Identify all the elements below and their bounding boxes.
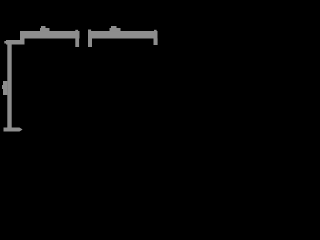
via stub V2: crossing at W4 left end: [88, 30, 92, 48]
wire W1: top-left horizontal net: [20, 31, 80, 39]
pin stub P1: nub at left end of jog: [4, 41, 6, 44]
wire: W1 lower horizontal jog: [6, 40, 25, 45]
pin stub P2: left protrusion on bus: [2, 81, 7, 95]
junction node N1: stepped stub on top of W1: [40, 26, 50, 31]
wire: W1 left corner vertical drop: [20, 31, 25, 45]
via stub V3: crossing at W4 right end: [154, 30, 158, 45]
wire W4: top-right horizontal net: [88, 31, 158, 39]
wire W3: bottom foot with tapered end: [4, 128, 23, 132]
via stub V1: crossing at W1 right end: [75, 30, 79, 47]
junction node N2: stepped stub on top of W4: [110, 26, 121, 31]
wire W2: left vertical bus: [7, 40, 11, 132]
